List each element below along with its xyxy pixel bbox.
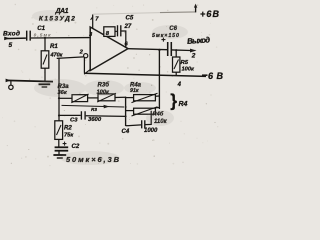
svg-text:27: 27: [124, 23, 132, 30]
svg-text:С2: С2: [72, 143, 80, 150]
capacitor C3: [59, 114, 81, 116]
svg-text:С3: С3: [70, 117, 78, 123]
wire pin2 drop: [83, 58, 85, 73]
output wire: [128, 49, 167, 50]
svg-text:1000: 1000: [144, 128, 158, 134]
wire node A to pin 2: [57, 57, 84, 59]
svg-text:R1: R1: [50, 43, 58, 50]
svg-text:470к: 470к: [50, 52, 64, 58]
thermistor R4a: [126, 97, 134, 99]
left bus of R4 network: [125, 97, 127, 126]
+6V rail: [93, 13, 160, 15]
-6V label: [202, 74, 208, 76]
correction box pin 8: [104, 27, 115, 37]
capacitor C2: [58, 139, 60, 146]
output drop / right bus: [158, 50, 160, 109]
svg-text:С4: С4: [122, 129, 130, 135]
node A riser: [58, 58, 60, 120]
resistor R1: [44, 39, 46, 51]
svg-text:R4: R4: [179, 101, 188, 108]
adjustment arrow line R3: [62, 105, 125, 107]
wire input to C1: [5, 37, 26, 40]
svg-text:100к: 100к: [182, 67, 195, 73]
-6V rail: [84, 73, 206, 76]
wire triangle corner to rail: [84, 70, 90, 75]
svg-text:4: 4: [177, 82, 182, 88]
node junction R1 tap: [44, 37, 46, 39]
pin 7 wire: [92, 14, 94, 28]
resistor R3a: [59, 97, 72, 99]
wire R3b to bus: [115, 96, 126, 98]
wire between R3a R3b: [88, 97, 98, 99]
resistor R5: [175, 50, 177, 57]
inverting input circle: [84, 54, 88, 58]
svg-text:Выход: Выход: [187, 35, 211, 46]
capacitor C5: [115, 30, 117, 32]
capacitor C1: [27, 31, 31, 41]
ground bus with input common terminal: [6, 80, 53, 81]
capacitor C4: [126, 124, 141, 127]
paper background: [0, 0, 226, 168]
wire C1 to pin3: [31, 37, 90, 39]
svg-text:+6В: +6В: [200, 9, 220, 19]
scan noise: [2, 4, 218, 167]
svg-text:}: }: [170, 90, 177, 110]
svg-text:3600: 3600: [88, 117, 102, 123]
resistor R3b: [98, 94, 115, 101]
svg-text:2: 2: [191, 53, 196, 60]
ground: [39, 83, 51, 85]
op-amp U1 triangle: [90, 27, 128, 71]
svg-text:5: 5: [9, 42, 13, 49]
svg-text:75к: 75к: [64, 133, 74, 139]
resistor R4b: [126, 110, 134, 112]
svg-text:6В: 6В: [208, 71, 224, 81]
resistor R2: [55, 121, 63, 140]
svg-text:С1: С1: [37, 25, 45, 32]
scan smudges: [32, 10, 188, 165]
ground under C2: [53, 154, 66, 156]
svg-text:R3: R3: [91, 107, 97, 112]
svg-text:R2: R2: [64, 124, 72, 131]
svg-text:R5: R5: [181, 60, 189, 66]
svg-text:С5: С5: [126, 15, 134, 22]
svg-text:Вход: Вход: [3, 30, 20, 38]
